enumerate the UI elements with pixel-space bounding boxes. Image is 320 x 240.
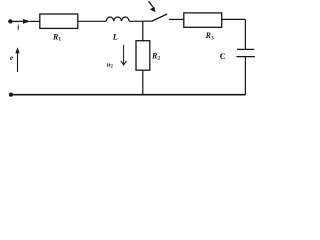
wire: inductor to switch [129, 20, 153, 22]
svg-text:L: L [112, 31, 118, 41]
svg-text:i: i [17, 24, 19, 32]
svg-text:e: e [10, 54, 13, 62]
wire: R2 bottom to bottom rail [142, 70, 144, 94]
wire: R1 to inductor [78, 20, 106, 22]
resistor R2 [136, 41, 150, 70]
wire: switch right contact to R3 [169, 18, 184, 20]
svg-text:R3: R3 [205, 31, 214, 41]
emf arrow e [15, 47, 19, 72]
svg-text:C: C [220, 51, 226, 61]
switch actuation arrow [149, 1, 156, 12]
wire: R3 to top-right corner [222, 18, 246, 20]
resistor R3 [184, 13, 222, 27]
resistor R1 [40, 14, 78, 28]
wire: junction down to R2 [142, 21, 144, 41]
current arrow i [10, 19, 30, 24]
node a (top-left terminal dot) [8, 19, 12, 23]
svg-text:R1: R1 [52, 32, 61, 42]
svg-text:R2: R2 [151, 51, 160, 61]
svg-text:u2: u2 [107, 61, 114, 69]
wire: arrow to R1 [30, 20, 40, 22]
switch S (open blade) [152, 14, 167, 21]
inductor L [106, 17, 129, 21]
wire: right vertical (bottom) [244, 57, 246, 95]
voltage arrow u2 [121, 45, 127, 65]
capacitor C [236, 49, 254, 56]
wire: right vertical (top) [244, 19, 246, 49]
node b (bottom-left terminal dot) [9, 93, 13, 97]
wire: bottom rail [11, 94, 246, 96]
